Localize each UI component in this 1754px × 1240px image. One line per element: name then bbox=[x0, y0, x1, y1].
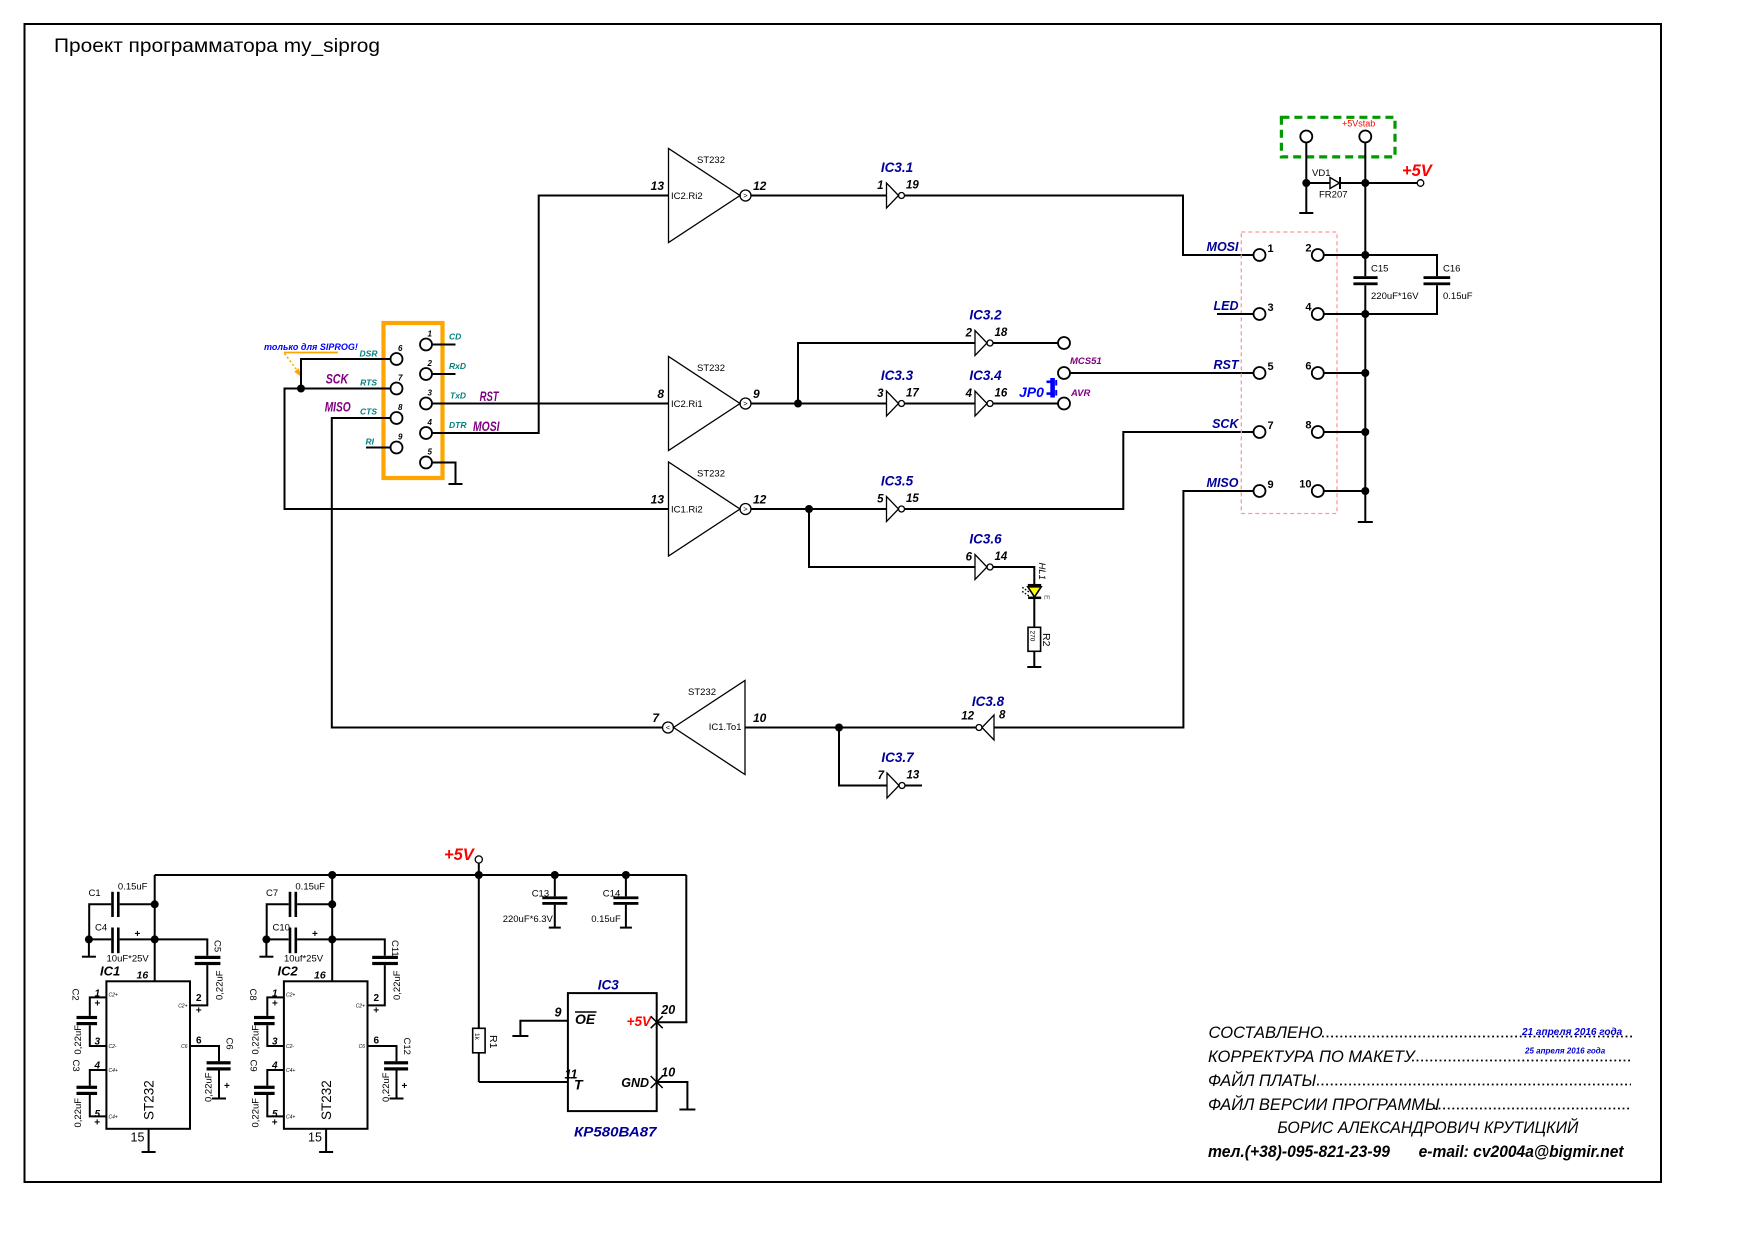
svg-text:SCK: SCK bbox=[326, 371, 349, 387]
svg-text:+: + bbox=[373, 1006, 379, 1017]
svg-text:только для SIPROG!: только для SIPROG! bbox=[264, 342, 358, 352]
wire +5V down to pin20 bbox=[685, 875, 687, 1022]
wire IC2 pin16 to +5V rail bbox=[331, 875, 333, 981]
svg-text:MISO: MISO bbox=[1207, 476, 1239, 490]
svg-text:RI: RI bbox=[366, 437, 375, 447]
svg-text:1: 1 bbox=[877, 180, 883, 192]
svg-text:+5V: +5V bbox=[627, 1014, 652, 1029]
inverter IC3.1 bbox=[877, 160, 919, 208]
capacitor C12 0,22uF bbox=[381, 1038, 412, 1103]
junction rail node row 4 bbox=[1361, 310, 1369, 318]
svg-text:СОСТАВЛЕНО: СОСТАВЛЕНО bbox=[1209, 1024, 1323, 1042]
svg-text:FR207: FR207 bbox=[1319, 190, 1348, 201]
wire branch to IC3.7 bbox=[839, 728, 887, 786]
svg-text:+: + bbox=[272, 999, 278, 1010]
wire IC2.Ri1 out bbox=[751, 403, 887, 405]
capacitor C1 0.15uF bbox=[89, 882, 148, 918]
svg-text:C9: C9 bbox=[247, 1060, 258, 1072]
wire C2 pin3 leg bbox=[90, 1025, 107, 1046]
svg-text:25 апреля 2016 года: 25 апреля 2016 года bbox=[1524, 1047, 1606, 1056]
jumper JP0 bbox=[1019, 378, 1057, 400]
wire C1 right leg bbox=[120, 903, 155, 905]
svg-text:TxD: TxD bbox=[450, 391, 466, 401]
svg-text:C2-: C2- bbox=[286, 1044, 294, 1050]
capacitor C10 10uf*25V bbox=[273, 923, 324, 965]
svg-text:C3: C3 bbox=[70, 1060, 81, 1072]
wire C5 top leg bbox=[155, 939, 208, 955]
svg-text:7: 7 bbox=[878, 770, 885, 782]
svg-text:7: 7 bbox=[398, 374, 403, 383]
buffer IC2.Ri2 (IC2.Ri2) bbox=[651, 149, 767, 243]
ground DB9 shell bbox=[449, 483, 463, 485]
svg-text:0,22uF: 0,22uF bbox=[73, 1025, 84, 1055]
wire C10 right leg bbox=[297, 938, 332, 940]
wire IC2 pin15 lead bbox=[325, 1129, 327, 1152]
junction rail node row 2 bbox=[1361, 251, 1369, 259]
svg-text:7: 7 bbox=[1268, 420, 1274, 432]
junction rail node row 10 bbox=[1361, 487, 1369, 495]
wire pin10 stub bbox=[657, 1082, 688, 1110]
svg-text:MISO: MISO bbox=[325, 399, 351, 415]
svg-text:C15: C15 bbox=[1371, 264, 1388, 275]
wire branch to IC3.6 bbox=[809, 509, 975, 567]
svg-text:4: 4 bbox=[965, 388, 973, 400]
wire +5V rail bbox=[155, 874, 687, 876]
svg-text:11: 11 bbox=[565, 1068, 578, 1082]
header pin 8 bbox=[1312, 426, 1324, 438]
svg-text:JP0: JP0 bbox=[1019, 384, 1044, 400]
junction rail node row 8 bbox=[1361, 428, 1369, 436]
svg-text:1: 1 bbox=[428, 330, 433, 339]
wire IC1.Ri2 out bbox=[751, 508, 887, 510]
svg-text:10: 10 bbox=[661, 1066, 675, 1080]
capacitor C11 0,22uF bbox=[372, 940, 403, 1017]
junction node C10 right bbox=[328, 935, 336, 943]
svg-text:C2+: C2+ bbox=[109, 993, 118, 999]
junction node Ri1 out bbox=[794, 400, 802, 408]
svg-text:C7: C7 bbox=[266, 888, 278, 899]
svg-text:C5: C5 bbox=[212, 940, 223, 952]
wire OE stub bbox=[520, 1021, 568, 1036]
svg-text:C4+: C4+ bbox=[109, 1115, 118, 1121]
svg-text:ST232: ST232 bbox=[697, 469, 725, 480]
inverter IC3.8 bbox=[961, 694, 1006, 740]
svg-text:5: 5 bbox=[1268, 361, 1274, 373]
inverter IC3.4 bbox=[965, 368, 1008, 416]
svg-text:>: > bbox=[743, 191, 748, 200]
capacitor C6 0,22uF bbox=[204, 1038, 235, 1103]
svg-text:220uF*6.3V: 220uF*6.3V bbox=[503, 914, 554, 925]
junction node C4 right bbox=[151, 935, 159, 943]
wire IC1 pin15 lead bbox=[148, 1129, 150, 1152]
wire header pin 8 to +5V/GND rail bbox=[1324, 431, 1365, 433]
inverter IC3.5 bbox=[877, 474, 919, 522]
header pin 2 bbox=[1312, 249, 1324, 261]
svg-text:MOSI: MOSI bbox=[473, 418, 500, 434]
header pin 5 bbox=[1254, 367, 1266, 379]
junction rail node IC2 bbox=[328, 871, 336, 879]
wire IC3.4 out to AVR pad bbox=[993, 403, 1058, 405]
svg-text:OE: OE bbox=[575, 1011, 596, 1027]
wire C10 left leg bbox=[266, 938, 288, 940]
wire C4 ground lead bbox=[88, 939, 90, 956]
svg-text:IC1.To1: IC1.To1 bbox=[709, 722, 742, 733]
svg-text:13: 13 bbox=[907, 770, 920, 782]
header pin 9 bbox=[1254, 485, 1266, 497]
svg-text:ST232: ST232 bbox=[688, 687, 716, 698]
svg-text:1: 1 bbox=[1268, 243, 1274, 255]
wire DB9 pin5 to ground bbox=[432, 463, 456, 485]
svg-text:C4: C4 bbox=[95, 923, 107, 934]
svg-text:10uF*25V: 10uF*25V bbox=[107, 954, 150, 965]
svg-text:ST232: ST232 bbox=[697, 155, 725, 166]
wire IC3.3 to IC3.4 bbox=[905, 403, 976, 405]
buffer IC1.Ri2 (IC1.Ri2) bbox=[651, 462, 767, 556]
pad IC3.2 output bbox=[1058, 337, 1070, 349]
wire C9 pin4 leg bbox=[267, 1070, 284, 1086]
wire C7 right leg bbox=[297, 903, 332, 905]
svg-text:18: 18 bbox=[995, 327, 1008, 339]
svg-text:12: 12 bbox=[753, 493, 767, 507]
svg-text:8: 8 bbox=[657, 387, 664, 401]
wire IC3.2 out to pad bbox=[993, 342, 1058, 344]
svg-text:220uF*16V: 220uF*16V bbox=[1371, 291, 1419, 302]
svg-text:IC2: IC2 bbox=[278, 964, 299, 979]
ground +5Vstab ground bbox=[1299, 212, 1313, 214]
connector ISP header (2x5) bbox=[1241, 232, 1337, 514]
svg-text:+: + bbox=[196, 1006, 202, 1017]
svg-text:C2-: C2- bbox=[109, 1044, 117, 1050]
svg-text:+: + bbox=[94, 1118, 100, 1129]
svg-text:+: + bbox=[95, 999, 101, 1010]
svg-text:IC1.Ri2: IC1.Ri2 bbox=[671, 505, 703, 516]
wire C11 to pin2 bbox=[368, 965, 385, 1005]
header pin 4 bbox=[1312, 308, 1324, 320]
ground C6 ground bbox=[212, 1098, 226, 1100]
ground C13 ground bbox=[549, 927, 561, 929]
capacitor C13 220uF*6.3V bbox=[503, 875, 568, 928]
svg-text:C14: C14 bbox=[603, 889, 620, 900]
svg-text:15: 15 bbox=[308, 1131, 322, 1145]
svg-text:ST232: ST232 bbox=[319, 1080, 334, 1120]
svg-text:<: < bbox=[666, 723, 671, 732]
inverter IC3.3 bbox=[877, 368, 919, 416]
svg-text:C2+: C2+ bbox=[178, 1004, 187, 1010]
svg-text:ФАЙЛ ВЕРСИИ ПРОГРАММЫ: ФАЙЛ ВЕРСИИ ПРОГРАММЫ bbox=[1208, 1095, 1440, 1114]
svg-text:4: 4 bbox=[427, 418, 433, 427]
svg-text:AVR: AVR bbox=[1070, 388, 1090, 399]
wire C12 pin6 leg bbox=[368, 1046, 397, 1061]
svg-text:9: 9 bbox=[555, 1006, 562, 1020]
svg-text:IC2.Ri2: IC2.Ri2 bbox=[671, 191, 703, 202]
svg-text:C2+: C2+ bbox=[356, 1004, 365, 1010]
svg-text:C16: C16 bbox=[1443, 264, 1460, 275]
svg-text:0.15uF: 0.15uF bbox=[1443, 291, 1473, 302]
wire C8 pin3 leg bbox=[267, 1025, 284, 1046]
svg-text:E: E bbox=[1043, 595, 1050, 600]
svg-text:3: 3 bbox=[428, 389, 433, 398]
svg-text:DSR: DSR bbox=[360, 349, 379, 359]
svg-text:MCS51: MCS51 bbox=[1070, 356, 1102, 367]
wire pin20 stub bbox=[657, 1021, 688, 1023]
svg-text:GND: GND bbox=[621, 1076, 649, 1090]
wire +5Vstab pin2 down bbox=[1364, 143, 1366, 184]
svg-text:IC3.8: IC3.8 bbox=[972, 694, 1005, 709]
wire C5 to pin2 bbox=[190, 965, 207, 1005]
svg-text:8: 8 bbox=[398, 403, 403, 412]
junction node C4 left bbox=[85, 935, 93, 943]
svg-text:6: 6 bbox=[196, 1036, 202, 1047]
svg-text:20: 20 bbox=[660, 1003, 675, 1017]
svg-text:CTS: CTS bbox=[360, 407, 377, 417]
wire C7 left leg bbox=[267, 904, 289, 939]
ground C14 ground bbox=[620, 927, 632, 929]
svg-text:RST: RST bbox=[480, 388, 500, 404]
wire C2 pin1 leg bbox=[90, 997, 107, 1016]
svg-text:IC3.3: IC3.3 bbox=[881, 368, 914, 383]
svg-text:Проект программатора my_siprog: Проект программатора my_siprog bbox=[54, 35, 380, 57]
svg-text:VD1: VD1 bbox=[1312, 168, 1330, 179]
connector X1 DB9 bbox=[384, 323, 443, 478]
svg-text:14: 14 bbox=[995, 551, 1008, 563]
svg-text:10: 10 bbox=[1299, 479, 1311, 491]
resistor R2 270 bbox=[1028, 627, 1052, 651]
inverter IC3.6 bbox=[966, 532, 1008, 580]
svg-text:9: 9 bbox=[1268, 479, 1274, 491]
wire C8 pin1 leg bbox=[267, 997, 284, 1016]
svg-text:5: 5 bbox=[428, 448, 433, 457]
wire RxD stub bbox=[432, 373, 456, 375]
svg-text:+: + bbox=[272, 1118, 278, 1129]
wire LED stub bbox=[1217, 313, 1254, 315]
wire GND rail vertical bbox=[1364, 285, 1366, 522]
junction rail node +5V terminal bbox=[475, 871, 483, 879]
wire +5V to C15 bbox=[1364, 183, 1366, 276]
wire header pin 2 to +5V/GND rail bbox=[1324, 254, 1365, 256]
svg-text:C1: C1 bbox=[89, 888, 101, 899]
svg-text:КР580ВА87: КР580ВА87 bbox=[574, 1125, 658, 1140]
ground OE ground bbox=[512, 1035, 528, 1037]
header pin 6 bbox=[1312, 367, 1324, 379]
svg-text:21 апреля 2016 года: 21 апреля 2016 года bbox=[1521, 1027, 1623, 1038]
svg-text:6: 6 bbox=[966, 552, 973, 564]
svg-text:+5V: +5V bbox=[1402, 162, 1434, 180]
ground R2 ground bbox=[1027, 666, 1041, 668]
svg-text:C13: C13 bbox=[532, 889, 549, 900]
svg-text:RST: RST bbox=[1214, 358, 1240, 372]
wire pin1 to ground bbox=[1305, 183, 1307, 213]
terminal +5V (top right) bbox=[1365, 162, 1434, 186]
svg-text:6: 6 bbox=[1305, 361, 1311, 373]
svg-text:5: 5 bbox=[877, 494, 884, 506]
wire C4 right leg bbox=[120, 938, 155, 940]
wire IC3.7 out stub bbox=[905, 785, 922, 787]
wire IC3.1 out to header MOSI bbox=[905, 196, 1254, 256]
svg-text:MOSI: MOSI bbox=[1207, 240, 1239, 254]
svg-text:0.15uF: 0.15uF bbox=[591, 914, 621, 925]
junction rail node C13 bbox=[551, 871, 559, 879]
terminal +5V (bottom) bbox=[444, 846, 482, 875]
wire R1 bottom leg bbox=[478, 1053, 480, 1082]
wire C4 left leg bbox=[89, 938, 111, 940]
wire CD stub bbox=[432, 344, 456, 346]
header pin 7 bbox=[1254, 426, 1266, 438]
diode VD1 FR207 bbox=[1306, 168, 1365, 201]
svg-text:+: + bbox=[312, 929, 318, 940]
IC IC3 KP580BA87 bbox=[555, 978, 676, 1140]
wire IC3.8 out to IC1.To1 bbox=[745, 727, 976, 729]
svg-text:IC3: IC3 bbox=[598, 978, 620, 993]
svg-text:13: 13 bbox=[651, 493, 665, 507]
wire C12 bottom leg bbox=[396, 1071, 398, 1099]
wire C1 left leg bbox=[89, 904, 111, 939]
capacitor C4 10uF*25V bbox=[95, 923, 149, 965]
junction VD1 anode node bbox=[1302, 179, 1310, 187]
wire RTS-SCK bbox=[285, 389, 669, 510]
buffer IC1.To1 (IC1.To1) bbox=[652, 681, 766, 775]
svg-text:C4+: C4+ bbox=[286, 1068, 295, 1074]
svg-text:e-mail: cv2004a@bigmir.net: e-mail: cv2004a@bigmir.net bbox=[1419, 1143, 1625, 1161]
wire R2 to ground bbox=[1033, 651, 1035, 667]
capacitor C2 0,22uF bbox=[70, 989, 101, 1055]
wire MCS51 to RST pad bbox=[1070, 372, 1254, 374]
svg-text:IC3.1: IC3.1 bbox=[881, 160, 913, 175]
ground IC2 cap ground bbox=[259, 956, 273, 958]
svg-text:+: + bbox=[402, 1081, 408, 1092]
svg-text:2: 2 bbox=[196, 993, 202, 1004]
wire T stub bbox=[479, 1081, 568, 1083]
junction +5V node bbox=[1361, 179, 1369, 187]
svg-text:DTR: DTR bbox=[449, 420, 467, 430]
ground C12 ground bbox=[390, 1098, 404, 1100]
wire C9 pin5 leg bbox=[267, 1095, 284, 1116]
svg-text:>: > bbox=[743, 505, 748, 514]
buffer IC2.Ri1 (IC2.Ri1) bbox=[657, 357, 760, 451]
svg-text:4: 4 bbox=[1305, 302, 1312, 314]
svg-text:0,22uF: 0,22uF bbox=[250, 1025, 261, 1055]
svg-text:БОРИС АЛЕКСАНДРОВИЧ КРУТИЦКИЙ: БОРИС АЛЕКСАНДРОВИЧ КРУТИЦКИЙ bbox=[1277, 1118, 1578, 1137]
svg-text:270: 270 bbox=[1028, 631, 1035, 642]
svg-text:КОРРЕКТУРА ПО МАКЕТУ: КОРРЕКТУРА ПО МАКЕТУ bbox=[1208, 1048, 1416, 1066]
svg-text:16: 16 bbox=[995, 388, 1008, 400]
svg-text:IC3.5: IC3.5 bbox=[881, 474, 914, 489]
svg-text:2: 2 bbox=[1305, 243, 1311, 255]
svg-text:6: 6 bbox=[398, 344, 403, 353]
svg-text:19: 19 bbox=[906, 180, 919, 192]
svg-text:SCK: SCK bbox=[1212, 417, 1239, 431]
svg-text:CD: CD bbox=[449, 332, 461, 342]
wire C3 pin4 leg bbox=[90, 1070, 107, 1086]
svg-text:IC3.2: IC3.2 bbox=[969, 308, 1002, 323]
svg-text:C6: C6 bbox=[223, 1038, 234, 1050]
header pin 3 bbox=[1254, 308, 1266, 320]
svg-text:0,22uF: 0,22uF bbox=[251, 1098, 262, 1128]
wire CTS-MISO bbox=[332, 418, 662, 728]
svg-text:12: 12 bbox=[961, 711, 974, 723]
svg-text:3: 3 bbox=[877, 388, 884, 400]
wire C11 top leg bbox=[332, 939, 385, 955]
resistor R1 1k bbox=[473, 1028, 499, 1053]
svg-text:9: 9 bbox=[398, 433, 403, 442]
svg-text:ST232: ST232 bbox=[142, 1080, 157, 1120]
svg-text:C8: C8 bbox=[247, 989, 258, 1001]
wire branch to IC3.2 bbox=[798, 343, 975, 404]
svg-text:2: 2 bbox=[427, 359, 433, 368]
svg-text:LED: LED bbox=[1214, 299, 1239, 313]
svg-text:+5Vstab: +5Vstab bbox=[1342, 119, 1375, 129]
svg-text:15: 15 bbox=[906, 493, 919, 505]
wire header pin 10 to +5V/GND rail bbox=[1324, 490, 1365, 492]
svg-text:16: 16 bbox=[314, 970, 326, 982]
svg-text:R1: R1 bbox=[487, 1035, 499, 1049]
wire C6 bottom leg bbox=[218, 1071, 220, 1099]
svg-text:10uf*25V: 10uf*25V bbox=[284, 954, 324, 965]
svg-text:R2: R2 bbox=[1040, 633, 1052, 647]
junction rail node row 6 bbox=[1361, 369, 1369, 377]
svg-text:9: 9 bbox=[753, 387, 760, 401]
wire RI stub bbox=[366, 447, 391, 449]
wire C10 ground lead bbox=[265, 939, 267, 956]
svg-text:IC2.Ri1: IC2.Ri1 bbox=[671, 399, 703, 410]
wire DTR-MOSI bbox=[432, 196, 669, 434]
wire TxD-RST bbox=[432, 403, 669, 405]
inverter IC3.7 bbox=[878, 750, 920, 798]
svg-text:IC3.4: IC3.4 bbox=[969, 368, 1002, 383]
svg-text:C11: C11 bbox=[389, 940, 400, 957]
svg-text:IC1: IC1 bbox=[100, 964, 120, 979]
svg-text:+: + bbox=[224, 1081, 230, 1092]
junction node C10 left bbox=[262, 935, 270, 943]
svg-text:IC3.7: IC3.7 bbox=[881, 750, 915, 765]
wire IC3.6 out to LED bbox=[993, 567, 1034, 585]
svg-text:0.15uF: 0.15uF bbox=[118, 882, 148, 893]
svg-text:C6: C6 bbox=[181, 1044, 188, 1050]
svg-text:0.15uF: 0.15uF bbox=[295, 882, 325, 893]
svg-text:8: 8 bbox=[999, 710, 1006, 722]
wire header pin 6 to +5V/GND rail bbox=[1324, 372, 1365, 374]
wire DSR jumper bbox=[301, 359, 391, 389]
capacitor C5 0,22uF bbox=[195, 940, 226, 1017]
svg-text:C4+: C4+ bbox=[286, 1115, 295, 1121]
capacitor C16 0.15uF bbox=[1365, 255, 1472, 314]
wire C3 pin5 leg bbox=[90, 1095, 107, 1116]
svg-text:10: 10 bbox=[753, 711, 767, 725]
connector +5Vstab bbox=[1281, 117, 1395, 157]
svg-text:16: 16 bbox=[137, 970, 149, 982]
capacitor C7 0.15uF bbox=[266, 882, 325, 918]
wire +5Vstab pin1 down bbox=[1305, 143, 1307, 184]
svg-text:3: 3 bbox=[1268, 302, 1274, 314]
capacitor C15 220uF*16V bbox=[1353, 264, 1419, 303]
svg-text:ST232: ST232 bbox=[697, 363, 725, 374]
capacitor C3 0,22uF bbox=[70, 1060, 101, 1129]
IC IC1 ST232 bbox=[93, 964, 202, 1145]
svg-text:+: + bbox=[135, 929, 141, 940]
svg-text:2: 2 bbox=[965, 328, 973, 340]
wire R1 top leg bbox=[478, 875, 480, 1028]
svg-text:C2+: C2+ bbox=[286, 993, 295, 999]
ground IC1 pin15 ground bbox=[142, 1151, 156, 1153]
ground IC2 pin15 ground bbox=[319, 1151, 333, 1153]
svg-text:C12: C12 bbox=[401, 1038, 412, 1055]
ground IC1 cap ground bbox=[82, 956, 96, 958]
title block bbox=[1208, 1024, 1579, 1137]
junction rail node C14 bbox=[622, 871, 630, 879]
svg-text:17: 17 bbox=[906, 388, 919, 400]
note only for SIPROG bbox=[264, 342, 358, 377]
svg-text:+5V: +5V bbox=[444, 846, 476, 864]
svg-text:12: 12 bbox=[753, 179, 767, 193]
